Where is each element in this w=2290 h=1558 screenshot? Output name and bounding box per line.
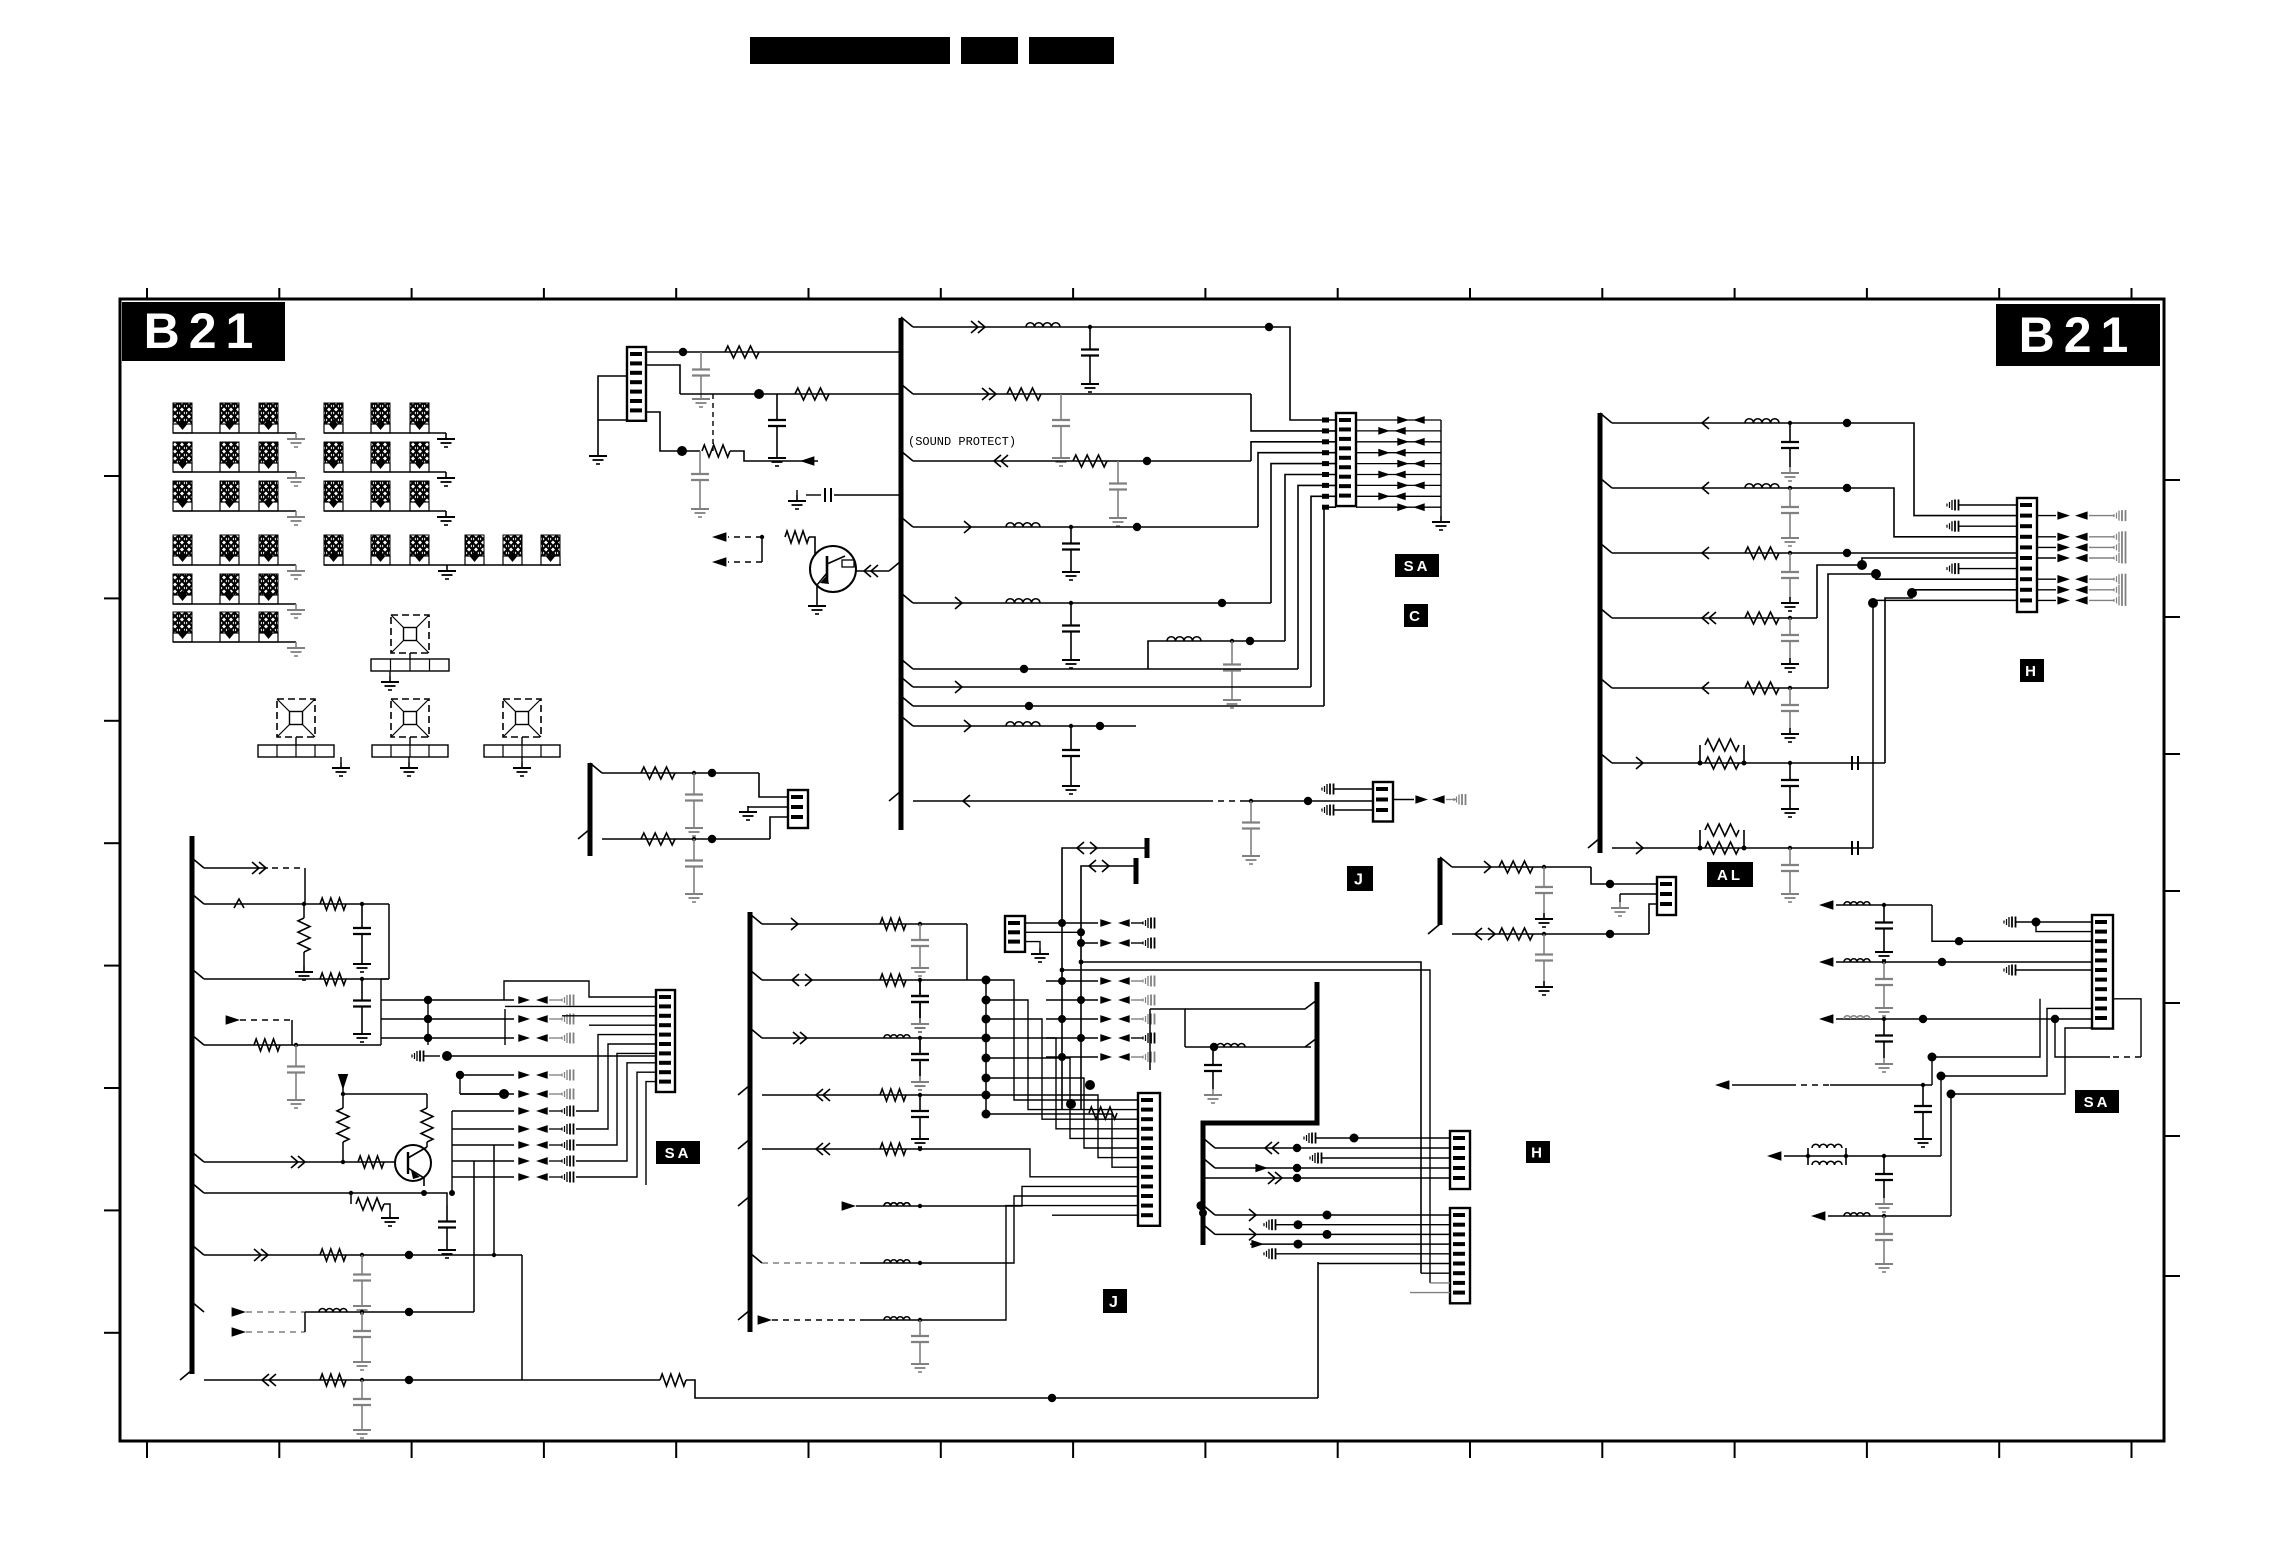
arrow right [2057, 586, 2070, 594]
bus tap [1588, 838, 1600, 848]
bus tap [738, 1310, 750, 1320]
inductor L (row423) [1745, 419, 1779, 423]
signal chevrons >> [982, 388, 989, 400]
arrow right [518, 1015, 530, 1023]
sheet label B21 top-left [122, 302, 285, 361]
junction [1066, 1099, 1076, 1109]
ground [919, 1358, 921, 1364]
junction [1088, 325, 1092, 329]
wire rowBC 1149 [762, 1148, 986, 1150]
arrow left [2075, 596, 2088, 604]
arrow right [1397, 503, 1409, 511]
ground [1070, 654, 1072, 660]
bus tap [901, 716, 913, 726]
signal chevron > [1636, 842, 1643, 854]
arrow left [2075, 543, 2088, 551]
ground [1117, 512, 1119, 518]
junction [918, 1036, 922, 1040]
shield pattern pad row4 col371 [371, 535, 390, 556]
bus tap [750, 1028, 762, 1038]
resistor R vert (Q2 collector) [426, 1094, 428, 1108]
capacitor C (CN1 pin1) [700, 352, 702, 370]
wire stair low 1320 [990, 1206, 1138, 1320]
capacitor C (row603) [1070, 603, 1072, 626]
wire fan row 1019 stub [549, 1018, 562, 1020]
junction [1868, 598, 1878, 608]
junction [760, 535, 764, 539]
wire to off-page arrow [730, 451, 818, 461]
wire fan row 1094 stub [549, 1093, 562, 1095]
ground [919, 1076, 921, 1082]
wire fanBC 923 [1025, 922, 1098, 924]
wire rowSR1216 [1828, 1215, 1951, 1217]
wire row1 left group [173, 432, 296, 434]
ground [919, 962, 921, 968]
junction [679, 348, 687, 356]
ground [295, 1094, 297, 1100]
wire stair 1078 [986, 1078, 1138, 1148]
arrow right [518, 1071, 530, 1079]
junction [1871, 569, 1881, 579]
junction [2032, 918, 2041, 927]
signal chevron > [955, 597, 962, 609]
gnd-cap stub CN4 pin7 [1951, 564, 1953, 574]
resistor R (AL1) [1499, 861, 1533, 873]
wire fan row 1129 [452, 1128, 514, 1130]
dashed net rowBC 1263 [762, 1262, 860, 1264]
junction [918, 978, 922, 982]
wire to CN4 pin6 [1817, 558, 2017, 618]
bus tap [738, 1085, 750, 1095]
bus tap [578, 829, 590, 839]
wire U2 to bar [295, 737, 297, 745]
signal chevron > [964, 521, 971, 533]
capacitor C (row461) [1117, 461, 1119, 484]
pad bar U1 [371, 659, 449, 671]
junction [1048, 1394, 1056, 1402]
gnd-cap stub [1147, 976, 1149, 986]
wire row 669 [913, 668, 1298, 670]
arrow left [536, 1173, 548, 1181]
wire CN2 out pin2 [1356, 430, 1441, 432]
shield pattern pad row1 left col220 [220, 403, 239, 424]
signal chevron > [1249, 1209, 1256, 1221]
wire CN2 out pin7 [1356, 484, 1441, 486]
arrow left [1413, 460, 1425, 468]
junction [1919, 1015, 1927, 1023]
wire CN2 out pin6 [1356, 474, 1441, 476]
wire fanBC 923 stub [1131, 922, 1143, 924]
arrow left [1394, 471, 1406, 479]
bus tap2 [1305, 1038, 1317, 1047]
wire row1193 [204, 1192, 424, 1194]
off-page arrow left [1811, 1211, 1825, 1221]
bus tap [1600, 543, 1612, 553]
ground (left cap) [796, 495, 798, 501]
shield pattern pad y574 col220 [220, 574, 239, 595]
junction [982, 1091, 991, 1100]
bus (bottom center) [748, 912, 753, 1332]
junction [1210, 1043, 1218, 1051]
wire row1312 up [473, 1161, 475, 1312]
resistor R (row1255) [320, 1249, 346, 1261]
transistor Q2 [395, 1145, 431, 1181]
arrow right [2057, 596, 2070, 604]
wire row4 left group [173, 564, 296, 566]
zone label H (bottom middle) [1526, 1141, 1550, 1163]
off-page arrow left [712, 532, 726, 542]
wire to CN4 pin4 [1847, 488, 2017, 537]
wire row904 drop [388, 904, 390, 979]
wire row 618 [1612, 617, 1817, 619]
bus tap [180, 1370, 192, 1380]
wire riser 460b [459, 1129, 461, 1145]
arrow right [518, 1157, 530, 1165]
capacitor C (ML1) [693, 773, 695, 795]
resistor R (rowBC 1095) [880, 1089, 906, 1101]
inductor L (rowBC 1038) [884, 1035, 910, 1038]
signal chevron up [234, 899, 244, 908]
junction [294, 1043, 298, 1047]
capacitor C (row1312) [361, 1312, 363, 1331]
ground [919, 1133, 921, 1139]
wire to CN2 pin7 [1298, 485, 1336, 669]
capacitor C (AL1) [1543, 867, 1545, 887]
shield pattern pad row2 left col220 [220, 442, 239, 463]
bus tap [901, 696, 913, 706]
wire fanBC 1038 [1046, 1037, 1098, 1039]
capacitor C chain 980 [919, 980, 921, 996]
wire CN10 pin2 [1215, 1147, 1450, 1149]
arrow right [1378, 427, 1390, 435]
junction [1060, 968, 1065, 973]
connector CN11 (H lower) [1450, 1208, 1470, 1303]
svg-text:(SOUND PROTECT): (SOUND PROTECT) [908, 435, 1016, 449]
wire riser 381 [380, 979, 382, 1045]
junction [1085, 1080, 1095, 1090]
shield pattern pad y612 col173 [173, 612, 192, 633]
inductor L (rowSR905) [1844, 902, 1870, 905]
IC pad array U3 (dashed) [391, 699, 429, 737]
capacitor C (rowSR962) [1883, 962, 1885, 979]
svg-text:SA: SA [2084, 1094, 2111, 1111]
wire rowBC 924 drop [966, 924, 968, 980]
junction [1020, 665, 1028, 673]
bus tap [738, 1139, 750, 1149]
shield pattern pad row2 mid col324 [324, 442, 343, 463]
arrow left [1413, 482, 1425, 490]
signal chevrons <> [1089, 860, 1096, 872]
wire to CN2 pin3 [1251, 442, 1336, 461]
ground row2 left group [295, 472, 297, 478]
wire row 327 [913, 326, 1269, 328]
arrow right [1397, 482, 1409, 490]
ground [361, 1300, 363, 1306]
ground [1089, 378, 1091, 384]
arrow left [1413, 416, 1425, 424]
bus tap [1203, 1138, 1215, 1148]
junction [1077, 928, 1085, 936]
resistor R (row451) [702, 445, 730, 457]
ground row1 left group [295, 433, 297, 439]
off-page arrow right 2 [232, 1327, 246, 1337]
wire fan row 1177 stub [549, 1176, 562, 1178]
junction [405, 1308, 413, 1316]
ground [1789, 728, 1791, 734]
wire fan row 1000 stub [549, 999, 562, 1001]
wire row 461 [913, 460, 1251, 462]
bus tap [192, 1035, 204, 1045]
arrow left [2075, 575, 2088, 583]
ground [693, 822, 695, 828]
ground [693, 888, 695, 894]
ground [747, 806, 749, 812]
arrow left [536, 1090, 548, 1098]
inductor L (rowSR1019) [1844, 1016, 1870, 1019]
junction [1294, 1240, 1303, 1249]
wire pads y612 [173, 641, 296, 643]
bus tap [1203, 1224, 1215, 1234]
ground row2 mid group [445, 472, 447, 478]
arrow left [1118, 1053, 1130, 1061]
gnd-cap stub [566, 1014, 568, 1024]
shield pattern pad y574 col259 [259, 574, 278, 595]
ground [919, 1018, 921, 1024]
wire row 495 [834, 494, 899, 496]
frame tick marks right edge [2164, 480, 2180, 1276]
arrow left [536, 1157, 548, 1165]
wire to CN4 pin2 [1847, 423, 2017, 516]
junction [1218, 599, 1226, 607]
wire row868 [204, 867, 268, 869]
ground [1231, 694, 1233, 700]
junction [1788, 421, 1792, 425]
bus (top center) [899, 318, 904, 830]
ground U4 [521, 757, 523, 762]
ground [597, 450, 599, 456]
wire CN1 left stubs [598, 376, 627, 420]
capacitor C (row423) [1789, 423, 1791, 442]
wire row 688 [1612, 687, 1828, 689]
inductor L (row641) [1167, 637, 1201, 641]
svg-text:B21: B21 [2019, 307, 2138, 363]
junction [360, 1253, 364, 1257]
ground [700, 393, 702, 399]
wire CN1 pin1 to bus [646, 351, 899, 353]
arrow left [1432, 795, 1445, 803]
resistor R vert (row904) [303, 904, 305, 918]
zone label SA (top center) [1395, 554, 1439, 577]
wire CN12 pin2 [2036, 922, 2092, 932]
junction [1882, 1214, 1886, 1218]
off-page arrow right [232, 1307, 246, 1317]
wire AL row1 [1452, 866, 1591, 868]
wire stair 1038 [986, 1038, 1138, 1129]
bus (bottom left) [190, 836, 195, 1374]
wire Q2 top [343, 1093, 427, 1095]
junction [302, 902, 306, 906]
junction [918, 1093, 922, 1097]
arrow right [1378, 449, 1390, 457]
arrow right [1100, 1034, 1112, 1042]
wire row 423 [1612, 422, 1847, 424]
gnd-cap stub [2118, 511, 2120, 521]
junction [456, 1071, 464, 1079]
wire rowSR905 [1836, 904, 1932, 906]
wire CN7 stair 646 [646, 1082, 656, 1185]
arrow left [1118, 1015, 1130, 1023]
junction [918, 1204, 922, 1208]
junction [449, 1190, 455, 1196]
wire to cap [2089, 578, 2114, 580]
ground [1883, 1002, 1885, 1008]
wire row979 [204, 978, 389, 980]
wire long H feed 2 [1062, 970, 1430, 1283]
gnd-cap stub [566, 1106, 568, 1116]
bus stub end [1145, 838, 1150, 858]
junction [421, 1190, 427, 1196]
wire CN2 out pin8 [1356, 495, 1441, 497]
IC pad array U2 (dashed) [277, 699, 315, 737]
ground [1619, 902, 1621, 908]
wire bottom right riser [1317, 1262, 1319, 1398]
capacitor C (rowBC 1095) [919, 1095, 921, 1111]
gnd-cap stub [2118, 585, 2120, 595]
junction [1937, 1072, 1946, 1081]
pin stub CN2 pin8 [1322, 494, 1329, 499]
svg-text:J: J [1354, 871, 1366, 888]
wire row1085 riser [1932, 999, 2040, 1085]
wire fanBC 1057 stub [1131, 1056, 1143, 1058]
wire row 394 [913, 393, 1251, 395]
signal chevron > [964, 720, 971, 732]
off-page arrow right [1255, 1164, 1268, 1172]
resistor R (row904) [320, 898, 346, 910]
junction [1921, 1083, 1925, 1087]
wire ML1 to CN6 pin1 [759, 773, 788, 797]
junction [1947, 1090, 1956, 1099]
gnd-cap stub [566, 1033, 568, 1043]
junction [982, 1054, 991, 1063]
bus tap [1185, 1000, 1317, 1009]
redaction bar 3 [1029, 37, 1114, 64]
arrow left [2075, 533, 2088, 541]
wire ML row1 [602, 772, 759, 774]
wire rowBC 1206 [856, 1205, 986, 1207]
ground [361, 1424, 363, 1430]
bus tap [1440, 857, 1452, 867]
resistor R (row1045) [254, 1039, 280, 1051]
connector CN4 (top right H) [2017, 498, 2037, 612]
gnd-cap stub [1147, 995, 1149, 1005]
dashed net to arrow 2 [728, 561, 762, 563]
gnd-cap stub [2118, 542, 2120, 552]
gnd-cap stub (left) [416, 1051, 418, 1061]
gnd-cap stub [1147, 918, 1149, 928]
wire row 527 [913, 526, 1258, 528]
wire row 1056 [447, 1055, 655, 1057]
wire CN4 out 3 [2037, 557, 2056, 559]
wire CN7 stair 608 [576, 1044, 656, 1129]
signal chevrons <> [792, 974, 799, 986]
junction [1079, 960, 1084, 965]
wire to CN2 pin2 [1251, 394, 1336, 431]
junction [1955, 937, 1963, 945]
ground [389, 1212, 391, 1218]
capacitor C (row763) [1789, 763, 1791, 780]
wire stair 1095 [986, 1095, 1138, 1158]
junction [708, 769, 716, 777]
bus thick L (mid) [1203, 982, 1317, 1245]
wire CN8 pin2 [1025, 931, 1081, 933]
connector CN10 (H upper) [1450, 1131, 1470, 1189]
wire fanBC 943 [1081, 942, 1098, 944]
capacitor C (row801) [1250, 801, 1252, 823]
signal chevron > [955, 681, 962, 693]
ground [1789, 467, 1791, 473]
bus tap [192, 1183, 204, 1193]
wire fanBC 1000 [1046, 999, 1098, 1001]
shield pattern pad row4 left col259 [259, 535, 278, 556]
signal chevron > [1249, 1228, 1256, 1240]
wire fan row 1075 [460, 1074, 514, 1076]
wire CN5 pin2 gnd [1620, 893, 1657, 895]
pin stub CN2 pin4 [1322, 450, 1329, 455]
junction [1788, 616, 1792, 620]
off-page arrow left [800, 456, 814, 466]
wire rowBC 1320 [860, 1319, 990, 1321]
capacitor C (row1255) [361, 1255, 363, 1275]
resistor R (CN9 pin2) [1089, 1107, 1117, 1119]
shield pattern pad row3 mid col324 [324, 481, 343, 502]
wire to cap [2089, 515, 2114, 517]
wire fan row 1111 [452, 1110, 514, 1112]
gnd-cap stub CN12 pin1 [2008, 917, 2010, 927]
bus tap [192, 1302, 204, 1312]
junction [360, 977, 364, 981]
ground pads y574 [295, 604, 297, 610]
wire to CN2 pin8 [1311, 496, 1336, 687]
wire row 848 [1612, 847, 1873, 849]
capacitor C (rowSR1156) [1883, 1156, 1885, 1174]
ground [1070, 566, 1072, 572]
wire CN6 pin2 gnd [748, 806, 788, 808]
wire fan row 1038 [381, 1037, 514, 1039]
wire CN11 pin4 [1250, 1243, 1450, 1245]
signal chevrons << [1272, 1142, 1279, 1154]
junction [677, 446, 687, 456]
wire row 687 [913, 686, 1311, 688]
shield pattern pad y574 col173 [173, 574, 192, 595]
off-page arrow right [226, 1015, 240, 1025]
pad bar U4 [484, 745, 560, 757]
resistor R (Q2 base) [358, 1156, 384, 1168]
wire column 986 [985, 980, 987, 1114]
wire row1045 [204, 1044, 381, 1046]
signal chevrons << (to Q1) [871, 565, 878, 577]
junction [918, 1261, 922, 1265]
bus tap [1428, 924, 1440, 934]
dashed net to arrow [728, 536, 762, 538]
arrow right [2057, 511, 2070, 519]
wire to CN2 pin4 [1258, 453, 1336, 527]
signal chevron < [1702, 682, 1709, 694]
capacitor C (row488) [1789, 488, 1791, 507]
junction [405, 1376, 413, 1384]
gnd-cap stub CN11 pin2 [1268, 1220, 1270, 1230]
wire row 726 [913, 725, 1136, 727]
wire fanBC 981 [1046, 980, 1098, 982]
